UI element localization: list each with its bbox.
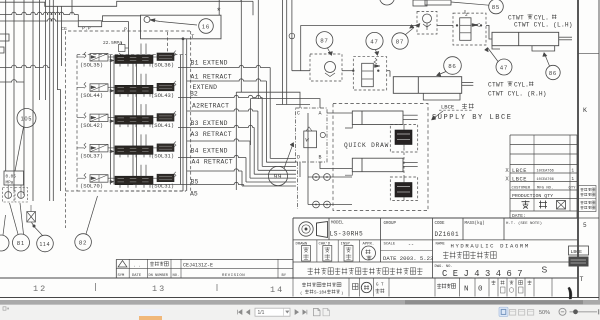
svg-text:5: 5 (583, 222, 587, 229)
svg-text:D: D (297, 155, 300, 161)
svg-text:87: 87 (396, 39, 404, 45)
svg-text:LBCE: LBCE (512, 168, 527, 174)
svg-text:1/1: 1/1 (258, 310, 265, 316)
svg-text:CEJ4131Z-E: CEJ4131Z-E (183, 262, 213, 268)
svg-text:DATE: DATE (132, 274, 142, 278)
svg-text:X: X (505, 168, 509, 174)
svg-text:B: B (319, 155, 322, 161)
svg-text:(: ( (300, 291, 302, 296)
svg-text:MASS(kg): MASS(kg) (465, 221, 485, 226)
svg-text:50%: 50% (539, 310, 550, 316)
svg-text:86: 86 (448, 64, 456, 70)
svg-text:105: 105 (21, 117, 33, 123)
svg-text:DZ1601: DZ1601 (435, 231, 460, 238)
svg-text:82: 82 (79, 240, 87, 246)
svg-text:22.5MPa: 22.5MPa (103, 40, 122, 46)
svg-text:87: 87 (320, 38, 328, 44)
svg-text:P.P: P.P (82, 26, 91, 32)
svg-text:(SOL35): (SOL35) (80, 62, 103, 69)
svg-text:SYM: SYM (118, 274, 126, 278)
svg-text:13: 13 (152, 284, 166, 294)
svg-text:(SOL42): (SOL42) (80, 122, 103, 129)
svg-text:H.T. (SEE NOTE): H.T. (SEE NOTE) (506, 221, 542, 226)
svg-text:A4 RETRACT: A4 RETRACT (192, 158, 233, 165)
svg-text:S-104: S-104 (314, 292, 327, 296)
svg-text:2: 2 (465, 12, 468, 18)
svg-text:85: 85 (492, 5, 500, 11)
svg-text:HYDRAULIC DIAGRM: HYDRAULIC DIAGRM (451, 242, 530, 249)
svg-text:16: 16 (202, 24, 210, 30)
svg-text:B2: B2 (190, 90, 198, 97)
svg-text:X: X (505, 177, 509, 183)
svg-text:47: 47 (370, 39, 378, 45)
svg-text:0.05: 0.05 (6, 175, 17, 180)
svg-text:LBCE: LBCE (571, 249, 583, 255)
svg-text:86: 86 (549, 71, 557, 77)
svg-text:MODEL: MODEL (331, 222, 344, 226)
svg-text:S: S (542, 264, 548, 274)
svg-text:B5: B5 (191, 179, 199, 186)
svg-text:10CEA766: 10CEA766 (537, 178, 554, 182)
svg-text:(SOL44): (SOL44) (80, 92, 103, 99)
svg-text:DWG. NO.: DWG. NO. (435, 265, 453, 269)
svg-text:SUPPLY BY LBCE: SUPPLY BY LBCE (432, 114, 513, 122)
svg-text:LBCE: LBCE (441, 104, 455, 111)
svg-text:CTWT CYL. (R.H): CTWT CYL. (R.H) (488, 90, 547, 97)
svg-text:N: N (464, 286, 469, 294)
svg-text:REVISION: REVISION (222, 274, 245, 278)
svg-text:A: A (319, 111, 322, 117)
svg-text:T: T (580, 276, 584, 283)
svg-text:MFG NO.: MFG NO. (537, 186, 553, 190)
svg-text:NO.: NO. (173, 274, 180, 278)
svg-text:10CEA766: 10CEA766 (537, 169, 554, 173)
svg-text:CG: CG (61, 26, 67, 32)
svg-text:CYL.: CYL. (514, 82, 529, 89)
svg-text:B3 EXTEND: B3 EXTEND (191, 120, 228, 127)
svg-text:(SOL31): (SOL31) (151, 183, 174, 190)
svg-text:PRODUCTION QTY: PRODUCTION QTY (512, 193, 553, 199)
svg-text:(SOL70): (SOL70) (80, 183, 103, 190)
svg-text:B1 EXTEND: B1 EXTEND (191, 59, 228, 66)
svg-text:12: 12 (33, 284, 47, 294)
svg-text:P: P (124, 27, 127, 33)
svg-text:114: 114 (40, 242, 51, 248)
svg-text:MPa: MPa (6, 181, 14, 186)
svg-text:CTWT: CTWT (488, 82, 504, 89)
svg-text:B4 EXTEND: B4 EXTEND (191, 148, 228, 155)
svg-text:): ) (341, 291, 343, 296)
svg-text:(SOL43): (SOL43) (151, 92, 174, 99)
svg-text:A2RETRACT: A2RETRACT (192, 103, 229, 110)
svg-text:GROUP: GROUP (384, 222, 397, 226)
svg-text:(SOL41): (SOL41) (151, 122, 174, 129)
svg-text:A1 RETRACT: A1 RETRACT (191, 73, 232, 80)
svg-text:LBCE: LBCE (512, 177, 527, 183)
svg-text:14: 14 (270, 285, 284, 295)
svg-text:SCALE: SCALE (384, 242, 396, 246)
svg-text:(SOL36): (SOL36) (151, 62, 174, 69)
svg-text:--: -- (408, 242, 414, 248)
svg-text:CTWT CYL. (L.H): CTWT CYL. (L.H) (514, 21, 573, 28)
svg-text:QUICK DRAW: QUICK DRAW (344, 142, 389, 149)
svg-text:BY: BY (282, 274, 287, 278)
svg-text:DATE 2003. 5.23: DATE 2003. 5.23 (383, 255, 433, 262)
svg-text:QTY: QTY (569, 186, 577, 190)
svg-text:LS-30RH5: LS-30RH5 (330, 231, 364, 238)
svg-text:81: 81 (17, 241, 25, 247)
svg-text:K: K (583, 107, 587, 114)
svg-text:CODE: CODE (435, 222, 446, 226)
svg-text:0: 0 (478, 286, 483, 294)
svg-text:C: C (297, 111, 300, 117)
svg-text:(SOL31): (SOL31) (151, 152, 174, 159)
svg-text:NAME: NAME (436, 242, 446, 246)
svg-text:A3 RETRACT: A3 RETRACT (191, 131, 232, 138)
svg-text:A5: A5 (190, 191, 198, 198)
svg-text:. .: . . (133, 264, 141, 269)
svg-text:DN NUMBER: DN NUMBER (149, 274, 169, 278)
svg-text:99: 99 (274, 174, 282, 180)
svg-text:47: 47 (500, 65, 508, 71)
svg-text:CUSTOMER: CUSTOMER (512, 186, 531, 190)
svg-text:G T: G T (376, 284, 384, 288)
svg-text:*: * (217, 6, 221, 16)
svg-text:(SOL37): (SOL37) (80, 152, 103, 159)
